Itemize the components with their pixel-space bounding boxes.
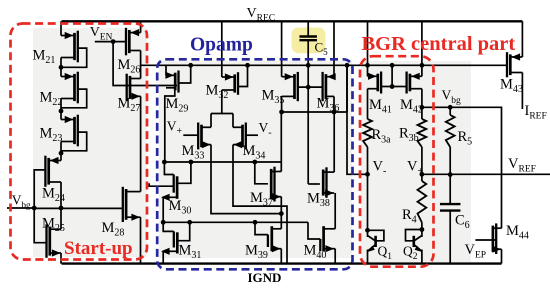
wire M29 drain [165, 90, 175, 162]
transistor M44 [475, 223, 501, 254]
transistor M30 channel [176, 176, 179, 199]
wire M21 diode loop [61, 48, 87, 67]
wire M31 arrow lead [163, 250, 177, 252]
label M40 [304, 243, 327, 262]
label VEP [465, 242, 487, 261]
resistor R3a [363, 119, 372, 147]
wire bias W65 [141, 64, 507, 66]
wire tail bar [211, 113, 233, 115]
wire M32 source from rail [221, 21, 223, 77]
node Vbg junction left [32, 206, 37, 211]
transistor M31 channel [176, 232, 179, 253]
label C5 [315, 40, 329, 58]
node W0 M30 [189, 160, 194, 165]
label M32 [206, 83, 229, 102]
transistor M27 [127, 74, 141, 101]
wire M26-M27 chain [140, 51, 142, 79]
label M27 [118, 96, 141, 115]
background BGR shading [361, 61, 471, 262]
wire M31 lead A [177, 222, 189, 240]
node W2 M31 [187, 220, 192, 225]
wire Vbg input stub [7, 207, 34, 209]
node out112 left [279, 110, 284, 115]
label VEN [90, 25, 113, 43]
wire spine M21-M22 [60, 58, 62, 77]
label V+ BGR [407, 159, 423, 178]
wire start-up spine top [60, 21, 62, 35]
wire M30 arrow lead [163, 196, 177, 198]
wire M40 source to rail [334, 249, 336, 264]
transistor M29 [165, 71, 178, 93]
wire M37 bottom vertical [280, 197, 282, 214]
background start-up shading [33, 28, 147, 257]
wire VEN [95, 41, 126, 43]
wire M36 source from rail [333, 21, 335, 76]
label VREC [247, 6, 276, 24]
label Q2 [403, 244, 418, 263]
wire M39 arrow lead [272, 248, 282, 250]
wire M26 source from rail [140, 21, 142, 32]
wire R3b top [421, 107, 423, 119]
node VREF [448, 172, 453, 177]
wire Vbg [422, 107, 502, 228]
arrow M40 [325, 245, 334, 252]
label V+ opamp [167, 119, 183, 138]
node spine Vbg [59, 206, 64, 211]
label M33 [182, 143, 205, 162]
wire V- sense [347, 65, 368, 174]
wire M42 source from rail [421, 21, 423, 76]
node W2 M39gate [253, 220, 258, 225]
wire spine M24-M25 [60, 182, 62, 229]
node gate587 [306, 85, 311, 90]
transistor M38 [323, 167, 334, 198]
wire W0 [164, 161, 281, 163]
transistor M24 [45, 156, 61, 187]
wire VEN down to M27 gate [113, 42, 177, 86]
wire M40 gate jog [308, 222, 320, 239]
node W65 M42 [420, 63, 425, 68]
wire C5 bottom lead [307, 40, 309, 65]
wire M38 gate feed [308, 183, 320, 185]
wire M24 gate to Vbg line [34, 170, 45, 208]
node W65 M29gate [188, 63, 193, 68]
svg-text:Start-up: Start-up [64, 238, 133, 259]
node W65 M32gate [245, 63, 250, 68]
wire M38-M40 vertical [334, 193, 336, 229]
label M41 [369, 97, 392, 116]
wire C6 top lead [449, 175, 451, 205]
wire M25 gate [34, 208, 46, 243]
label M29 [166, 96, 189, 115]
BGR dashed box [360, 56, 434, 267]
transistor Q1 [365, 228, 384, 264]
wire M35 M36 gate bar [297, 86, 322, 88]
wire M34 drain down [233, 145, 287, 264]
label M37 [250, 190, 273, 209]
label M24 [42, 186, 65, 205]
wire M43 source from rail [521, 21, 523, 57]
wire M41 source from rail [367, 21, 369, 76]
node M23 bottom [59, 151, 64, 156]
label M36 [317, 96, 340, 115]
label M31 [179, 243, 202, 262]
label M34 [243, 143, 266, 162]
wire M33 drain down [211, 145, 281, 214]
label IREF [525, 103, 547, 122]
node W65 C5 [306, 63, 311, 68]
wire M39 top lead [272, 228, 282, 230]
wire W2 [163, 221, 308, 223]
node M22-M23 [59, 109, 64, 114]
capacitor C6 [440, 204, 461, 211]
wire M41 drain down [367, 89, 369, 119]
arrow M39 [272, 245, 281, 252]
svg-text:BGR central part: BGR central part [362, 33, 516, 55]
label IGND [248, 270, 282, 285]
wire M31 lead B [163, 222, 174, 231]
wire tail left [210, 114, 212, 128]
node M21-M22 [59, 65, 64, 70]
wire out bar y112 [282, 111, 347, 113]
node W2 left [161, 220, 166, 225]
wire M39 source to rail [280, 249, 282, 264]
transistor M42 [407, 72, 422, 94]
label Q1 [378, 244, 393, 263]
wire Vbg to M28 gate [34, 207, 123, 209]
wire M38 top vertical [333, 112, 335, 172]
label C6 [455, 213, 470, 232]
wire M42 drain down [421, 89, 423, 108]
wire M32 gate jog [238, 65, 248, 86]
node M33-M37-M39 junction [279, 211, 284, 216]
wire VREF [422, 173, 550, 175]
transistor M36 [323, 72, 336, 101]
background opamp shading [159, 61, 352, 258]
wire M39 gate jog [255, 222, 268, 234]
label VREF [508, 156, 536, 175]
resistor R4 [418, 181, 427, 223]
wire M37 gate feed [255, 162, 268, 184]
label Vbg right [442, 88, 462, 107]
transistor M35 [282, 72, 298, 101]
wire M35 source from rail [281, 21, 283, 76]
wire center gate vertical [391, 65, 393, 86]
label R3b [399, 126, 419, 145]
label R5 [458, 129, 473, 148]
transistor M30 gate bar [173, 175, 175, 193]
wire tail right [232, 114, 234, 128]
wire M39 top vertical [280, 214, 282, 229]
wire M30 lead B [164, 162, 173, 175]
transistor M28 [123, 187, 141, 222]
wire M35 drain [281, 96, 283, 112]
label R3a [372, 127, 392, 146]
label M22 [40, 90, 63, 109]
label V- opamp [259, 120, 272, 139]
node Vbg node [420, 105, 425, 110]
label M35 [262, 88, 285, 107]
wire M32 drain to tail [221, 90, 223, 114]
wire R3a bottom [367, 147, 369, 230]
transistor M43 [507, 52, 522, 77]
label M28 [102, 220, 125, 239]
transistor M33 [183, 123, 211, 150]
label M42 [400, 97, 423, 116]
transistor M34 [233, 123, 258, 150]
IGND bottom rail [62, 262, 502, 264]
wire M42 gate [392, 86, 407, 88]
wire R5 bottom lead [449, 147, 451, 175]
wire C6 bottom lead [449, 211, 451, 264]
title BGR central part [362, 33, 516, 55]
resistor R3b [418, 119, 427, 147]
VREC top rail [62, 20, 523, 22]
transistor M39 gate bar [267, 235, 269, 247]
transistor M22 [61, 72, 78, 104]
node W0 M37gate [252, 160, 257, 165]
wire M43 drain IREF [521, 73, 523, 110]
svg-text:Opamp: Opamp [190, 35, 253, 56]
node W0 left [162, 160, 167, 165]
start-up dashed box [11, 24, 148, 260]
node VEN [111, 39, 116, 44]
label M21 [33, 48, 56, 67]
node W65 M41 [365, 63, 370, 68]
transistor M41 [368, 72, 382, 94]
svg-text:IGND: IGND [248, 270, 282, 285]
arrow M31 [161, 248, 170, 255]
capacitor C5 [299, 37, 317, 41]
transistor M39 channel [270, 226, 273, 251]
transistor M40 gate bar [319, 239, 321, 251]
node V- tap [365, 172, 370, 177]
wire gate node vertical [307, 65, 309, 184]
wire R4 bottom [421, 223, 423, 230]
node center gate [390, 84, 395, 89]
transistor M26 [126, 28, 141, 56]
wire M36 drain [333, 96, 335, 112]
transistor M25 [47, 224, 62, 257]
wire M30 lead A [177, 162, 191, 183]
wire C5 top lead [307, 21, 309, 36]
wire M29 gate jog [178, 65, 190, 83]
wire M28 source to rail [140, 217, 142, 263]
transistor Q2 [406, 227, 425, 264]
label M44 [506, 223, 529, 242]
label V- BGR [373, 159, 387, 178]
opamp dashed box [157, 59, 352, 269]
arrow M30 [161, 194, 170, 201]
label M26 [118, 57, 141, 76]
transistor M37 [271, 167, 281, 202]
resistor R5 [446, 115, 455, 147]
node W65 center [390, 63, 395, 68]
node W65 out [345, 63, 350, 68]
C5 yellow highlight [292, 28, 326, 54]
wire M41 gate [381, 86, 392, 88]
wire R3b bottom [421, 147, 423, 181]
label M43 [500, 77, 523, 96]
label M25 [42, 216, 65, 235]
wire spine M25 to rail [60, 253, 62, 264]
wire M31 source to rail [162, 251, 164, 263]
node R5 top [448, 105, 453, 110]
transistor M40 channel [322, 226, 325, 251]
label M30 [169, 198, 192, 217]
wire M37 top vertical [280, 112, 282, 172]
wire M40 arrow lead [324, 248, 336, 250]
node V+ tap [420, 172, 425, 177]
title Opamp [190, 35, 253, 56]
transistor M23 [61, 115, 78, 147]
wire M29 source stub [165, 65, 167, 75]
node out112 right [332, 110, 337, 115]
transistor M21 [61, 31, 78, 63]
wire M44 source to rail [501, 249, 503, 263]
wire out up [346, 65, 348, 112]
label Vbg left [12, 193, 31, 211]
wire M22 diode loop [61, 89, 87, 108]
wire M40 top lead [324, 228, 336, 230]
label M23 [40, 126, 63, 145]
label M39 [245, 243, 268, 262]
wire spine M23-M24 [60, 142, 62, 161]
wire M30 gate wire [149, 183, 174, 186]
wire M30 source down [162, 197, 164, 222]
label R4 [402, 207, 417, 226]
label M38 [307, 191, 330, 210]
transistor M31 gate bar [173, 231, 175, 247]
wire spine M22-M23 [60, 99, 62, 120]
title Start-up [64, 238, 133, 259]
wire M27-M28 chain [140, 96, 142, 191]
wire R5 top lead [449, 107, 451, 115]
transistor M32 [222, 72, 238, 95]
wire M23 diode loop [61, 132, 87, 151]
